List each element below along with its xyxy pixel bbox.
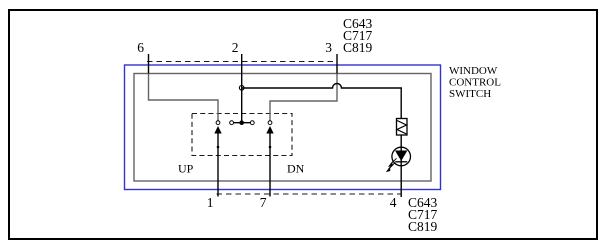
connector C643/C717/C819 top dashed line [147, 61, 337, 63]
UP label [178, 162, 194, 176]
pin 4 wire [400, 166, 402, 197]
wire pin 3 internal (gray) to DN contact [270, 74, 337, 121]
connector label top C643 C717 C819 [343, 16, 373, 55]
pin 6 lead wire [148, 54, 150, 74]
pole contact left [230, 121, 234, 125]
svg-text:C819: C819 [343, 40, 373, 55]
pole junction dot [239, 120, 244, 125]
pin 3 label [325, 40, 332, 55]
node ring at pin 2 branch [239, 86, 244, 91]
switch pole bar [232, 122, 253, 124]
svg-text:1: 1 [207, 195, 214, 210]
internal circuit board box (gray) [134, 74, 431, 182]
svg-text:UP: UP [178, 162, 194, 176]
wire resistor to LED [400, 135, 402, 147]
svg-text:7: 7 [260, 195, 267, 210]
connector C643/C717/C819 bottom dashed line [217, 193, 401, 195]
svg-text:2: 2 [232, 40, 239, 55]
connector label bottom C643 C717 C819 [408, 195, 438, 234]
pin 3 lead wire [336, 54, 338, 74]
svg-text:SWITCH: SWITCH [449, 88, 491, 100]
svg-text:3: 3 [325, 40, 332, 55]
svg-text:6: 6 [137, 40, 144, 55]
DN contact circle [268, 121, 272, 125]
pin 6 label [137, 40, 144, 55]
DN label [287, 162, 305, 176]
pin 7 actuator wire with arrow to DN contact [266, 126, 273, 197]
pin 2 label [232, 40, 239, 55]
svg-text:WINDOW: WINDOW [449, 65, 498, 77]
svg-text:C819: C819 [408, 219, 438, 234]
pin 1 actuator wire with arrow to UP contact [214, 126, 221, 197]
resistor [397, 119, 408, 136]
LED indicator [385, 147, 410, 172]
svg-text:4: 4 [390, 195, 397, 210]
wire pin 6 internal (gray) to UP contact [149, 74, 219, 121]
switch housing dashed box [192, 114, 292, 156]
pin 1 label [207, 195, 214, 210]
wire node branch to resistor with hop over pin 3 wire [242, 84, 402, 119]
switch assembly box (blue outline) [125, 65, 441, 190]
svg-text:DN: DN [287, 162, 305, 176]
component name label [449, 65, 501, 100]
pin 7 label [260, 195, 267, 210]
UP contact circle [216, 121, 220, 125]
pin 4 label [390, 195, 397, 210]
svg-text:CONTROL: CONTROL [449, 77, 501, 89]
pin 2 wire to switch pole [241, 54, 243, 123]
pole contact right [250, 121, 254, 125]
